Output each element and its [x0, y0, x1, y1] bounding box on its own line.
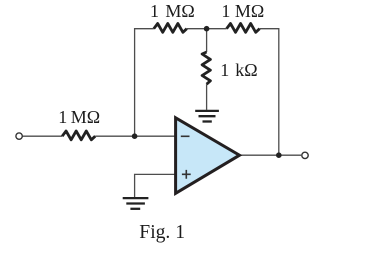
input terminal (open circle) — [16, 133, 22, 139]
svg-text:Fig. 1: Fig. 1 — [139, 222, 185, 243]
wire: junction dot to 1k resistor — [206, 29, 208, 52]
op-amp plus sign — [182, 170, 191, 179]
resistor R_in 1 MOhm (input) — [62, 131, 95, 140]
resistor R2 1 MOhm (top left) — [154, 24, 187, 33]
op-amp minus sign — [181, 135, 190, 137]
node: junction dot at inverting input — [132, 133, 138, 139]
svg-text:1: 1 — [58, 107, 67, 127]
wire: inverting node up to top feedback rail — [135, 29, 154, 137]
wire: R_in to inverting input node and op-amp — [95, 135, 175, 137]
wire: between R2 and R3 on top rail — [187, 28, 227, 30]
svg-text:kΩ: kΩ — [235, 60, 257, 80]
resistor R4 1 kOhm (vertical) — [202, 52, 210, 84]
node: junction dot at output — [276, 152, 282, 158]
wire: input terminal to R_in — [23, 135, 63, 137]
wire: op-amp output to terminal — [240, 154, 302, 156]
node: junction dot on top rail — [204, 26, 210, 32]
svg-text:MΩ: MΩ — [235, 1, 264, 21]
svg-text:MΩ: MΩ — [165, 1, 194, 21]
output terminal (open circle) — [302, 152, 308, 158]
svg-text:1: 1 — [150, 1, 159, 21]
wire: non-inverting input to ground — [135, 174, 176, 197]
ground (below 1 kOhm) — [195, 111, 219, 122]
resistor R3 1 MOhm (top right) — [227, 24, 260, 33]
svg-text:1: 1 — [220, 60, 229, 80]
wire: R3 to right corner and down to output node — [260, 29, 279, 156]
ground (non-inverting input) — [123, 198, 149, 209]
svg-text:1: 1 — [221, 1, 230, 21]
wire: 1k resistor to ground — [206, 84, 208, 110]
svg-text:MΩ: MΩ — [71, 107, 100, 127]
op-amp U1 — [176, 118, 240, 194]
